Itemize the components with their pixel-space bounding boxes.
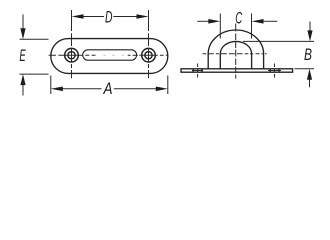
- svg-text:B: B: [304, 45, 312, 64]
- svg-text:E: E: [19, 46, 26, 65]
- svg-text:D: D: [105, 8, 113, 27]
- svg-text:C: C: [235, 9, 242, 28]
- svg-text:A: A: [103, 79, 113, 98]
